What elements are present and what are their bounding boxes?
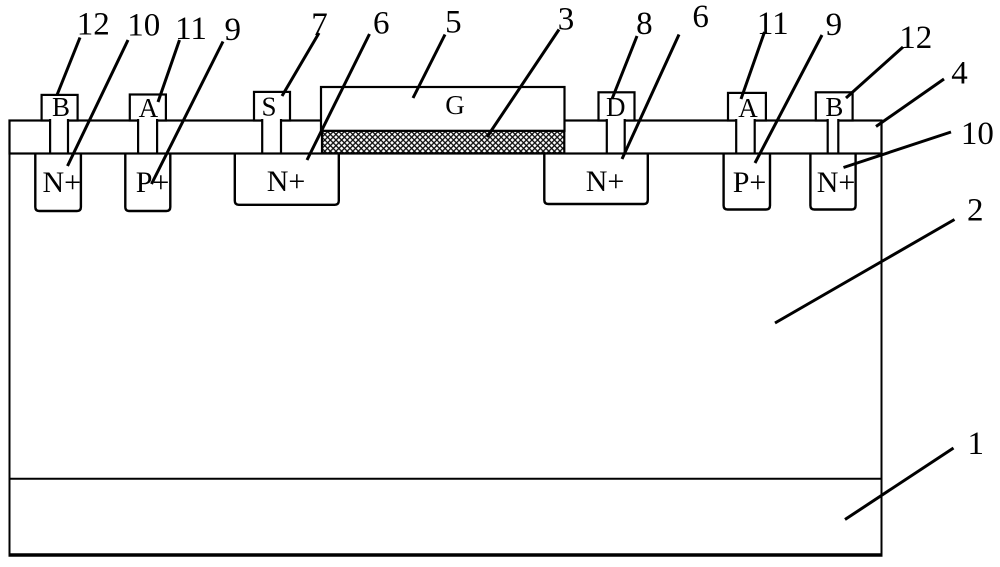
gate electrode 5 (poly, G) [321,87,565,131]
svg-text:N+: N+ [817,166,856,199]
leader line 11 (left) [158,40,180,102]
leader line 7 [282,33,319,96]
leader line 10 (left) [68,40,129,166]
svg-text:S: S [261,92,276,122]
svg-text:6: 6 [692,0,709,35]
contact box A (right) [728,93,766,121]
svg-text:12: 12 [899,20,932,56]
leader line 6 (right) [622,35,679,160]
svg-text:7: 7 [311,7,328,43]
svg-text:B: B [52,92,70,122]
P+ well under A contact (right) [724,153,770,210]
contact box B (right) [816,92,853,120]
N+ source well under S contact [235,153,339,205]
substrate layer 1 (bottom layer) interface line [10,478,882,480]
svg-text:9: 9 [826,7,843,43]
svg-text:G: G [445,90,465,120]
plug under B (left) [50,118,68,152]
leader line 5 [413,35,445,99]
leader line 3 [487,30,559,138]
plug under B (right) [828,118,839,152]
plug under A (left) [138,118,157,152]
leader line 4 [876,79,944,127]
P+ well under A contact (left) [125,153,170,212]
svg-text:5: 5 [445,4,462,40]
leader line 8 [612,36,637,99]
N+ drain well under D contact [544,153,648,205]
leader line 9 (right) [755,35,822,163]
svg-text:10: 10 [961,116,994,152]
substrate layer 2 (epitaxial region) [10,154,882,556]
gate dielectric 3 (crosshatched) [322,131,564,154]
leader line 9 (left) [152,42,224,185]
svg-text:D: D [606,92,626,122]
svg-text:11: 11 [757,6,789,42]
svg-text:10: 10 [127,8,160,44]
leader line 11 (right) [741,32,765,99]
N+ well under B contact (left) [35,153,81,212]
leader line 10 (right) [844,132,952,168]
svg-text:A: A [139,93,159,123]
svg-text:N+: N+ [267,165,306,198]
svg-text:2: 2 [967,193,984,229]
svg-text:N+: N+ [586,165,625,198]
contact box B (left) [42,95,78,121]
contact box S [254,92,290,121]
svg-text:12: 12 [77,7,110,43]
leader line 1 [845,448,954,520]
svg-text:4: 4 [951,56,968,92]
leader line 2 [775,220,955,324]
svg-text:P+: P+ [733,166,767,199]
plug under S [262,118,281,152]
svg-text:3: 3 [558,2,575,38]
svg-text:N+: N+ [43,166,82,199]
contact box A (left) [130,95,166,121]
svg-text:11: 11 [175,11,207,47]
leader line 12 (right) [846,47,903,98]
svg-text:9: 9 [224,12,241,48]
plug under D [607,118,625,152]
contact box D [599,92,635,120]
plug under A (right) [736,118,755,152]
svg-text:8: 8 [636,6,653,42]
svg-text:6: 6 [373,5,390,41]
leader line 6 (left) [307,34,370,160]
svg-text:B: B [825,92,843,122]
field oxide band layer 4 [10,121,882,154]
N+ well under B contact (right) [810,153,855,210]
leader line 12 (left) [57,38,80,96]
svg-text:1: 1 [968,426,985,462]
bottom edge of layer 1 [9,553,883,557]
